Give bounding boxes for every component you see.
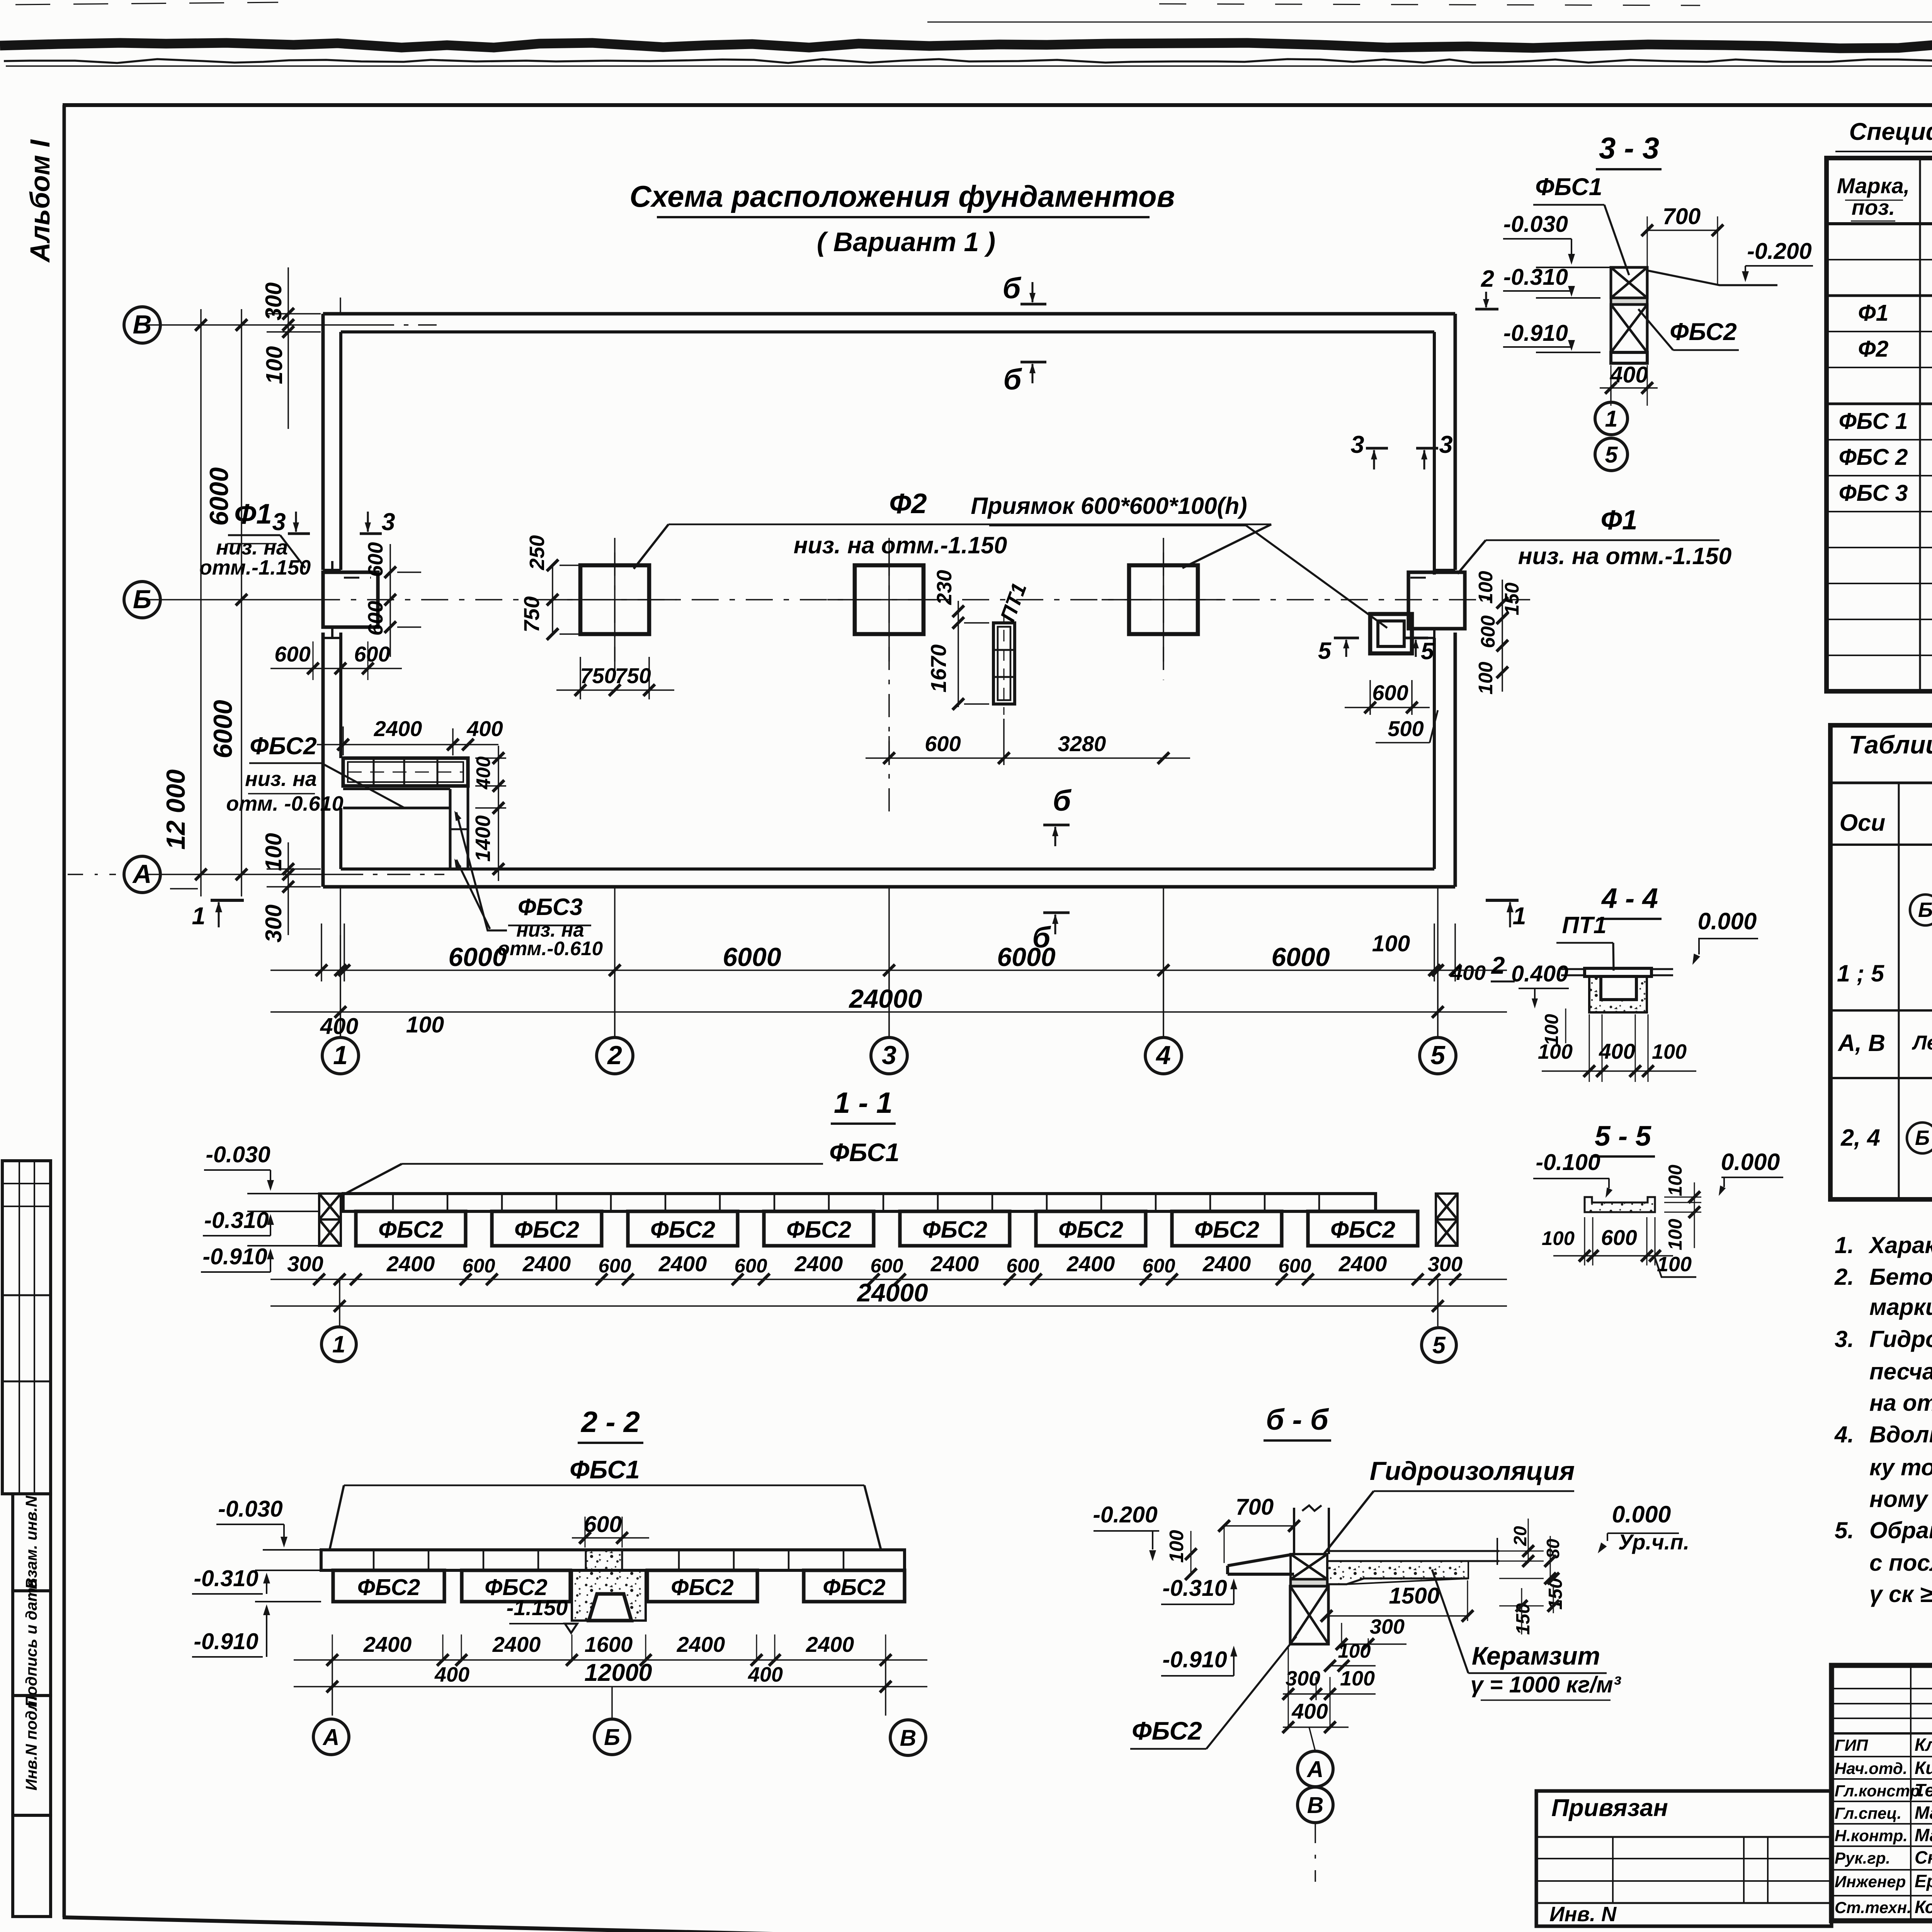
dim 100/400 bottom right (1434, 923, 1435, 981)
svg-text:1600: 1600 (585, 1632, 633, 1656)
svg-text:Ур.ч.п.: Ур.ч.п. (1618, 1530, 1689, 1554)
svg-text:700: 700 (1663, 204, 1701, 229)
1-1 band joint (937, 1194, 939, 1211)
svg-text:( Вариант 1 ): ( Вариант 1 ) (817, 227, 995, 257)
svg-text:2400: 2400 (677, 1632, 725, 1656)
svg-text:3: 3 (1350, 431, 1364, 458)
svg-text:Гл.спец.: Гл.спец. (1835, 1804, 1901, 1822)
svg-text:Н.контр.: Н.контр. (1835, 1827, 1908, 1845)
plan inner wall bottom (341, 867, 1434, 871)
plan outer wall right (gap at Ф1) (1454, 314, 1457, 570)
1-1 top panel leader line (402, 1163, 823, 1165)
2-2 axis circles (313, 1719, 349, 1755)
plan outer wall left (gap at Ф1) (321, 314, 325, 570)
svg-text:5: 5 (1318, 638, 1332, 664)
band right jog verticals (449, 789, 452, 869)
plan inner wall left (gaps) (339, 332, 342, 570)
wall jog below Ф1 right (1433, 627, 1435, 638)
svg-text:б: б (1003, 363, 1022, 396)
band joint (373, 758, 375, 786)
Б-Б upper X block (1291, 1554, 1327, 1579)
Ф2 leader to axis4 square (1182, 524, 1271, 568)
svg-text:2400: 2400 (374, 716, 422, 741)
ПТ1 joint 2 (993, 676, 1015, 678)
svg-text:γ = 1000 кг/м³: γ = 1000 кг/м³ (1471, 1672, 1621, 1697)
ФБС3 leader 2 (456, 860, 490, 929)
svg-text:400: 400 (320, 1014, 359, 1039)
axis line А (68, 874, 116, 875)
frame left line (63, 105, 66, 1917)
svg-text:5: 5 (1605, 442, 1618, 468)
2-2 band joint (373, 1550, 375, 1570)
svg-text:300: 300 (261, 282, 286, 321)
svg-text:300: 300 (1428, 1253, 1463, 1276)
ФБС3 leader 1 (456, 812, 507, 930)
2-2 band joint (733, 1550, 735, 1570)
channel ПТ1 plan outline (993, 623, 1015, 704)
load table frame (1830, 725, 1932, 1199)
svg-text:750: 750 (519, 596, 544, 632)
svg-text:6000: 6000 (723, 942, 781, 972)
2-2 band joint (678, 1550, 680, 1570)
svg-text:Рук.гр.: Рук.гр. (1835, 1849, 1890, 1867)
svg-text:300: 300 (287, 1252, 323, 1276)
svg-text:Керамзит: Керамзит (1472, 1641, 1600, 1670)
svg-text:600: 600 (354, 642, 390, 666)
svg-text:100: 100 (1542, 1227, 1575, 1249)
foundation Ф2 square at x=3011 (1129, 565, 1198, 634)
axis extension 5 (1437, 970, 1439, 1037)
spec row line (1827, 439, 1932, 440)
axis circle 1 (322, 1037, 359, 1074)
svg-text:ФБС2: ФБС2 (823, 1575, 886, 1600)
spec row line (1827, 619, 1932, 620)
svg-text:100: 100 (1372, 931, 1410, 956)
axis line 2 vertical (614, 887, 616, 1037)
title col 1 (1910, 1665, 1912, 1921)
2-2 dim chain (294, 1659, 927, 1661)
svg-text:0.000: 0.000 (1612, 1501, 1671, 1527)
svg-text:6000: 6000 (448, 942, 507, 972)
svg-text:В: В (133, 310, 151, 339)
svg-text:6000: 6000 (208, 700, 238, 758)
3-3 bottom pad (1611, 352, 1647, 363)
svg-text:2400: 2400 (794, 1252, 843, 1276)
svg-text:750: 750 (615, 663, 651, 688)
axis line В (147, 324, 371, 326)
svg-text:100: 100 (1475, 662, 1497, 694)
svg-text:100: 100 (1665, 1165, 1686, 1196)
svg-text:100: 100 (1657, 1253, 1692, 1276)
svg-text:Схема расположения фундаментов: Схема расположения фундаментов (629, 179, 1175, 213)
svg-text:24000: 24000 (848, 984, 922, 1014)
pit Приямок outer square (1370, 614, 1412, 653)
5-5 right dims 100 100 (1664, 1197, 1701, 1198)
svg-text:Взам. инв.N: Взам. инв.N (22, 1495, 40, 1589)
svg-text:6000: 6000 (997, 942, 1055, 972)
svg-text:Ф2: Ф2 (1858, 336, 1889, 362)
svg-text:отм. -0.610: отм. -0.610 (226, 792, 343, 815)
svg-text:3: 3 (381, 509, 395, 536)
2-2 ФБС2 boxes (333, 1570, 444, 1602)
svg-text:Б: Б (604, 1725, 620, 1750)
svg-text:Спецификация элементов к сх: Спецификация элементов к схеме расположе… (1849, 118, 1932, 145)
svg-text:на отм. - 0.030 с гидрофо: на отм. - 0.030 с гидрофобными добавками… (1869, 1390, 1932, 1416)
top stray dashes (15, 2, 278, 5)
dim 750/750 horizontal below axis2 square (580, 657, 581, 699)
1-1 band joint (665, 1194, 667, 1211)
title small row (1832, 1688, 1932, 1689)
corner dim 300/100 top-left (287, 267, 289, 429)
svg-text:Марков: Марков (1915, 1803, 1932, 1823)
svg-text:300: 300 (1370, 1615, 1405, 1638)
svg-text:А, В: А, В (1837, 1030, 1885, 1056)
svg-text:Альбом I: Альбом I (25, 139, 56, 263)
svg-text:600: 600 (274, 642, 310, 666)
margin box Подпись и дата (13, 1591, 51, 1696)
dim 230/1670 near ПТ1 (957, 601, 959, 707)
Б-Б wing slab (1228, 1554, 1294, 1566)
wall stub above Ф1 right (1433, 561, 1435, 572)
dim 600/600 left Ф1 (270, 668, 402, 669)
1-1 left X end block (319, 1194, 341, 1219)
svg-text:ФБС2: ФБС2 (1058, 1216, 1123, 1243)
svg-text:600: 600 (462, 1255, 495, 1277)
svg-text:100: 100 (1541, 1014, 1562, 1046)
svg-text:2: 2 (1491, 952, 1505, 979)
band center dashes (348, 772, 463, 773)
spec row line (1827, 475, 1932, 476)
2-2 dim 12000 (294, 1686, 927, 1687)
svg-text:песчаного раствора марки 1: песчаного раствора марки 100 состава 1:2… (1869, 1359, 1932, 1384)
svg-text:2400: 2400 (386, 1252, 435, 1276)
svg-text:Гл.констр.: Гл.констр. (1835, 1782, 1924, 1800)
svg-text:ФБС2: ФБС2 (922, 1216, 987, 1243)
svg-text:-0.030: -0.030 (218, 1496, 282, 1522)
2-2 trapezoid cup (589, 1594, 631, 1621)
svg-text:ПТ1: ПТ1 (1562, 912, 1606, 938)
svg-text:ФБС2: ФБС2 (786, 1216, 851, 1243)
Б-Б floor slab right (1327, 1550, 1499, 1552)
axis circle Б (124, 582, 160, 618)
svg-text:Ким: Ким (1915, 1758, 1932, 1778)
5-5 channel shallow (1585, 1197, 1655, 1212)
plan outer wall bottom (323, 885, 1455, 889)
Б-Б mortar band (1291, 1579, 1327, 1586)
3-3 upper block ФБС1 (1611, 267, 1647, 298)
plan outer wall top (323, 312, 1455, 316)
title block frame (1832, 1665, 1932, 1921)
svg-text:100: 100 (1665, 1219, 1686, 1250)
svg-text:марки 50 толщ. 20 мм.: марки 50 толщ. 20 мм. (1869, 1294, 1932, 1320)
svg-text:2400: 2400 (1066, 1252, 1115, 1276)
1-1 band joint (392, 1194, 394, 1211)
svg-text:600: 600 (925, 731, 961, 756)
dim 750/750 vertical at axis2 square (552, 565, 553, 634)
axis line 3 vertical (888, 887, 890, 1037)
svg-text:2400: 2400 (1338, 1252, 1387, 1276)
load col Оси (1898, 783, 1900, 1199)
svg-text:4: 4 (1155, 1041, 1171, 1070)
frame top line (63, 103, 1932, 107)
svg-text:1670: 1670 (926, 645, 951, 693)
title row ГИП top (1832, 1732, 1932, 1735)
svg-text:Нач.отд.: Нач.отд. (1835, 1759, 1907, 1777)
margin stamp table (2, 1161, 51, 1494)
foundation Ф1 at axis 1 (323, 572, 378, 627)
svg-text:отм.-0.610: отм.-0.610 (498, 937, 603, 959)
svg-text:Клейн: Клейн (1915, 1735, 1932, 1755)
svg-text:400: 400 (1291, 1699, 1328, 1723)
svg-text:2400: 2400 (658, 1252, 707, 1276)
dim 400/400/1400 right of band (475, 757, 506, 759)
dim 600 600 vertical right of Ф1 (389, 544, 391, 657)
plan inner wall right (gaps) (1433, 332, 1436, 575)
svg-text:б: б (1002, 272, 1021, 305)
svg-text:1 ; 5: 1 ; 5 (1837, 960, 1884, 986)
svg-text:Ф1: Ф1 (1601, 505, 1638, 536)
svg-text:2: 2 (607, 1041, 622, 1070)
svg-text:А: А (322, 1725, 340, 1750)
3-3 mortar band (1611, 298, 1647, 304)
spec col line (1919, 158, 1921, 691)
axis circle А (124, 856, 160, 893)
ФБС2 leader (321, 763, 404, 808)
svg-text:100: 100 (262, 346, 287, 384)
svg-text:400: 400 (748, 1663, 783, 1686)
svg-text:100: 100 (1340, 1667, 1375, 1690)
svg-text:24000: 24000 (856, 1278, 928, 1307)
svg-text:В: В (900, 1725, 917, 1751)
svg-text:-0.200: -0.200 (1093, 1502, 1157, 1527)
axis line 1 upper (340, 298, 341, 314)
1-1 band joint (774, 1194, 776, 1211)
svg-text:-0.030: -0.030 (206, 1142, 270, 1167)
2-2 band joint (788, 1550, 790, 1570)
svg-text:ФБС3: ФБС3 (518, 894, 583, 920)
wall jog below Ф1 left (331, 627, 333, 638)
svg-text:400: 400 (1599, 1039, 1635, 1063)
svg-text:Инв.N подл.: Инв.N подл. (22, 1696, 40, 1791)
svg-text:γ ск ≥ 1,6 т/м³.: γ ск ≥ 1,6 т/м³. (1869, 1581, 1932, 1607)
crosshair (888, 538, 890, 662)
2-2 band joint (428, 1550, 430, 1570)
svg-text:4 - 4: 4 - 4 (1601, 883, 1658, 914)
Б-Б keramzit stipple (1327, 1561, 1468, 1584)
svg-text:ФБС2: ФБС2 (250, 733, 317, 760)
svg-text:Ф2: Ф2 (889, 488, 927, 519)
1-1 band joint (1318, 1194, 1320, 1211)
svg-text:ФБС1: ФБС1 (1535, 173, 1602, 201)
svg-text:600: 600 (1278, 1255, 1311, 1277)
margin box Инв.N подл. (13, 1696, 51, 1815)
svg-text:600: 600 (1142, 1255, 1175, 1277)
spec row line (1827, 547, 1932, 548)
title row (1832, 1801, 1932, 1802)
svg-text:0.400: 0.400 (1511, 961, 1568, 986)
svg-text:150: 150 (1501, 582, 1523, 615)
crosshair (1163, 538, 1164, 662)
svg-text:12 000: 12 000 (161, 769, 190, 850)
axis circle 4 (1145, 1037, 1182, 1074)
svg-text:230: 230 (933, 570, 956, 605)
svg-text:Оси: Оси (1840, 810, 1886, 836)
svg-text:Характеристики грунта основа: Характеристики грунта основания даны на … (1868, 1232, 1932, 1258)
svg-text:Ленточный фундамент: Ленточный фундамент (1912, 1032, 1932, 1054)
svg-text:-0.910: -0.910 (202, 1244, 267, 1269)
svg-text:ФБС2: ФБС2 (378, 1216, 443, 1243)
svg-text:В: В (1307, 1793, 1324, 1818)
svg-text:Подпись и дата: Подпись и дата (22, 1579, 40, 1707)
1-1 band joint (883, 1194, 884, 1211)
spec row line (1827, 259, 1932, 260)
1-1 ФБС2 blocks row (356, 1211, 466, 1246)
svg-text:700: 700 (1236, 1494, 1274, 1520)
svg-text:2400: 2400 (806, 1632, 854, 1656)
strip foundation ФБС2 plan band (343, 758, 468, 786)
svg-text:6000: 6000 (204, 467, 234, 526)
svg-text:ФБС2: ФБС2 (1330, 1216, 1395, 1243)
margin box empty bottom (13, 1815, 51, 1917)
axis circle 2 (597, 1037, 633, 1074)
2-2 band joint (843, 1550, 845, 1570)
svg-text:600: 600 (734, 1255, 767, 1277)
svg-text:500: 500 (1388, 716, 1423, 741)
2-2 band (321, 1550, 905, 1570)
axis line Б (147, 599, 313, 600)
4-4 channel body stippled (1589, 976, 1647, 1012)
svg-text:100: 100 (1165, 1530, 1187, 1563)
dashed wall through Ф1 left (344, 577, 371, 579)
svg-text:низ. на: низ. на (216, 536, 288, 559)
svg-text:600: 600 (1477, 615, 1499, 648)
axis extension 1 (340, 970, 341, 1037)
ПТ1 joint 1 (993, 649, 1015, 651)
svg-text:А: А (132, 859, 151, 889)
svg-text:Обратную засыпку пазух котл: Обратную засыпку пазух котлованов произв… (1869, 1517, 1932, 1543)
2-2 band joint (537, 1550, 539, 1570)
svg-text:5: 5 (1432, 1332, 1446, 1358)
spec table frame (1827, 158, 1932, 691)
svg-text:2 - 2: 2 - 2 (580, 1406, 640, 1439)
band dashed inner (348, 762, 463, 782)
axis line 4 dash in square (1163, 553, 1164, 680)
axis extension 4 (1163, 970, 1164, 1037)
svg-text:3 - 3: 3 - 3 (1599, 131, 1659, 165)
vertical dim line 6000 chain (241, 309, 242, 896)
1-1 band joint (447, 1194, 449, 1211)
svg-text:Скобликов: Скобликов (1915, 1847, 1932, 1867)
1-1 band joint (556, 1194, 558, 1211)
svg-text:Вдоль наружных стен устроит: Вдоль наружных стен устроить асфальтовую… (1869, 1422, 1932, 1447)
svg-text:Инженер: Инженер (1835, 1872, 1906, 1891)
title row (1832, 1869, 1932, 1871)
3-3 lower block ФБС2 (1611, 304, 1647, 352)
svg-text:Марков: Марков (1915, 1825, 1932, 1845)
spec row line (1827, 294, 1932, 297)
3-3 ground line (1647, 270, 1777, 285)
title small row (1832, 1718, 1932, 1719)
svg-text:1.: 1. (1835, 1232, 1854, 1258)
svg-text:1: 1 (192, 903, 205, 930)
svg-text:400: 400 (434, 1663, 469, 1686)
svg-text:низ. на отм.-1.150: низ. на отм.-1.150 (1518, 543, 1732, 569)
svg-text:400: 400 (472, 756, 494, 789)
Ф2 leader to axis2 square (634, 524, 668, 569)
1-1 band joint (828, 1194, 830, 1211)
1-1 band joint (1155, 1194, 1157, 1211)
thin line under torn edge (6, 65, 1932, 67)
svg-text:Ст.техн.: Ст.техн. (1835, 1898, 1912, 1917)
svg-text:Привязан: Привязан (1551, 1794, 1668, 1821)
Ф2 leader line (668, 524, 1271, 526)
svg-text:-0.200: -0.200 (1747, 238, 1811, 264)
1-1 block band (343, 1194, 1376, 1211)
svg-text:ФБС 1: ФБС 1 (1839, 408, 1908, 434)
scanner edge line top right (927, 22, 1932, 23)
svg-text:ФБС1: ФБС1 (570, 1455, 640, 1484)
band joint (403, 758, 405, 786)
svg-text:100: 100 (1338, 1640, 1371, 1662)
svg-text:300: 300 (1286, 1667, 1320, 1690)
1-1 band joint (501, 1194, 503, 1211)
svg-text:ФБС2: ФБС2 (357, 1575, 420, 1600)
svg-text:ФБС2: ФБС2 (650, 1216, 715, 1243)
dim 2400/400 above plan band (342, 726, 344, 755)
axis line 5 vertical (1437, 887, 1439, 1037)
underline niz (227, 543, 277, 544)
margin box Взам. инв.N (13, 1494, 51, 1591)
svg-text:150: 150 (1513, 1603, 1534, 1635)
svg-text:Ермакова: Ермакова (1915, 1871, 1932, 1891)
svg-text:1: 1 (332, 1331, 345, 1357)
svg-text:Б: Б (133, 585, 151, 614)
svg-text:б: б (1053, 784, 1071, 817)
title row (1832, 1823, 1932, 1825)
svg-text:4.: 4. (1834, 1422, 1854, 1447)
svg-text:-0.100: -0.100 (1536, 1150, 1600, 1175)
corner dim 100/300 bottom-left (287, 842, 289, 935)
Приямок leader (1246, 526, 1387, 628)
Б-Б right dim chain 20 80 150 150 (1499, 1551, 1544, 1552)
svg-text:-1.150: -1.150 (507, 1595, 568, 1620)
svg-text:2: 2 (1481, 265, 1494, 292)
svg-text:Марка,: Марка, (1837, 173, 1910, 198)
svg-text:100: 100 (261, 833, 286, 871)
svg-text:2400: 2400 (522, 1252, 571, 1276)
svg-text:1500: 1500 (1389, 1583, 1439, 1609)
svg-text:Бетонные блоки укладывать н: Бетонные блоки укладывать на цементном р… (1869, 1264, 1932, 1290)
svg-text:6000: 6000 (1271, 942, 1330, 972)
axis circle 5 (1420, 1037, 1456, 1074)
load row 1;5 schema (1910, 895, 1932, 925)
Б-Б axis circles А В (1309, 1727, 1315, 1751)
title row (1832, 1778, 1932, 1780)
svg-text:100: 100 (406, 1012, 444, 1037)
svg-text:300: 300 (261, 905, 286, 943)
svg-text:600: 600 (364, 542, 387, 577)
svg-text:100: 100 (1652, 1040, 1687, 1063)
svg-text:ФБС1: ФБС1 (829, 1138, 900, 1167)
svg-text:А: А (1306, 1757, 1324, 1782)
ПТ1 axis dash (1003, 611, 1005, 715)
spec row line (1827, 403, 1932, 405)
axis line 1 vertical (340, 887, 341, 1037)
dims near pit right: 100 150 600 100 (1502, 580, 1503, 692)
plan inner wall top (341, 330, 1434, 333)
title small row (1832, 1703, 1932, 1704)
svg-text:5: 5 (1430, 1041, 1446, 1070)
